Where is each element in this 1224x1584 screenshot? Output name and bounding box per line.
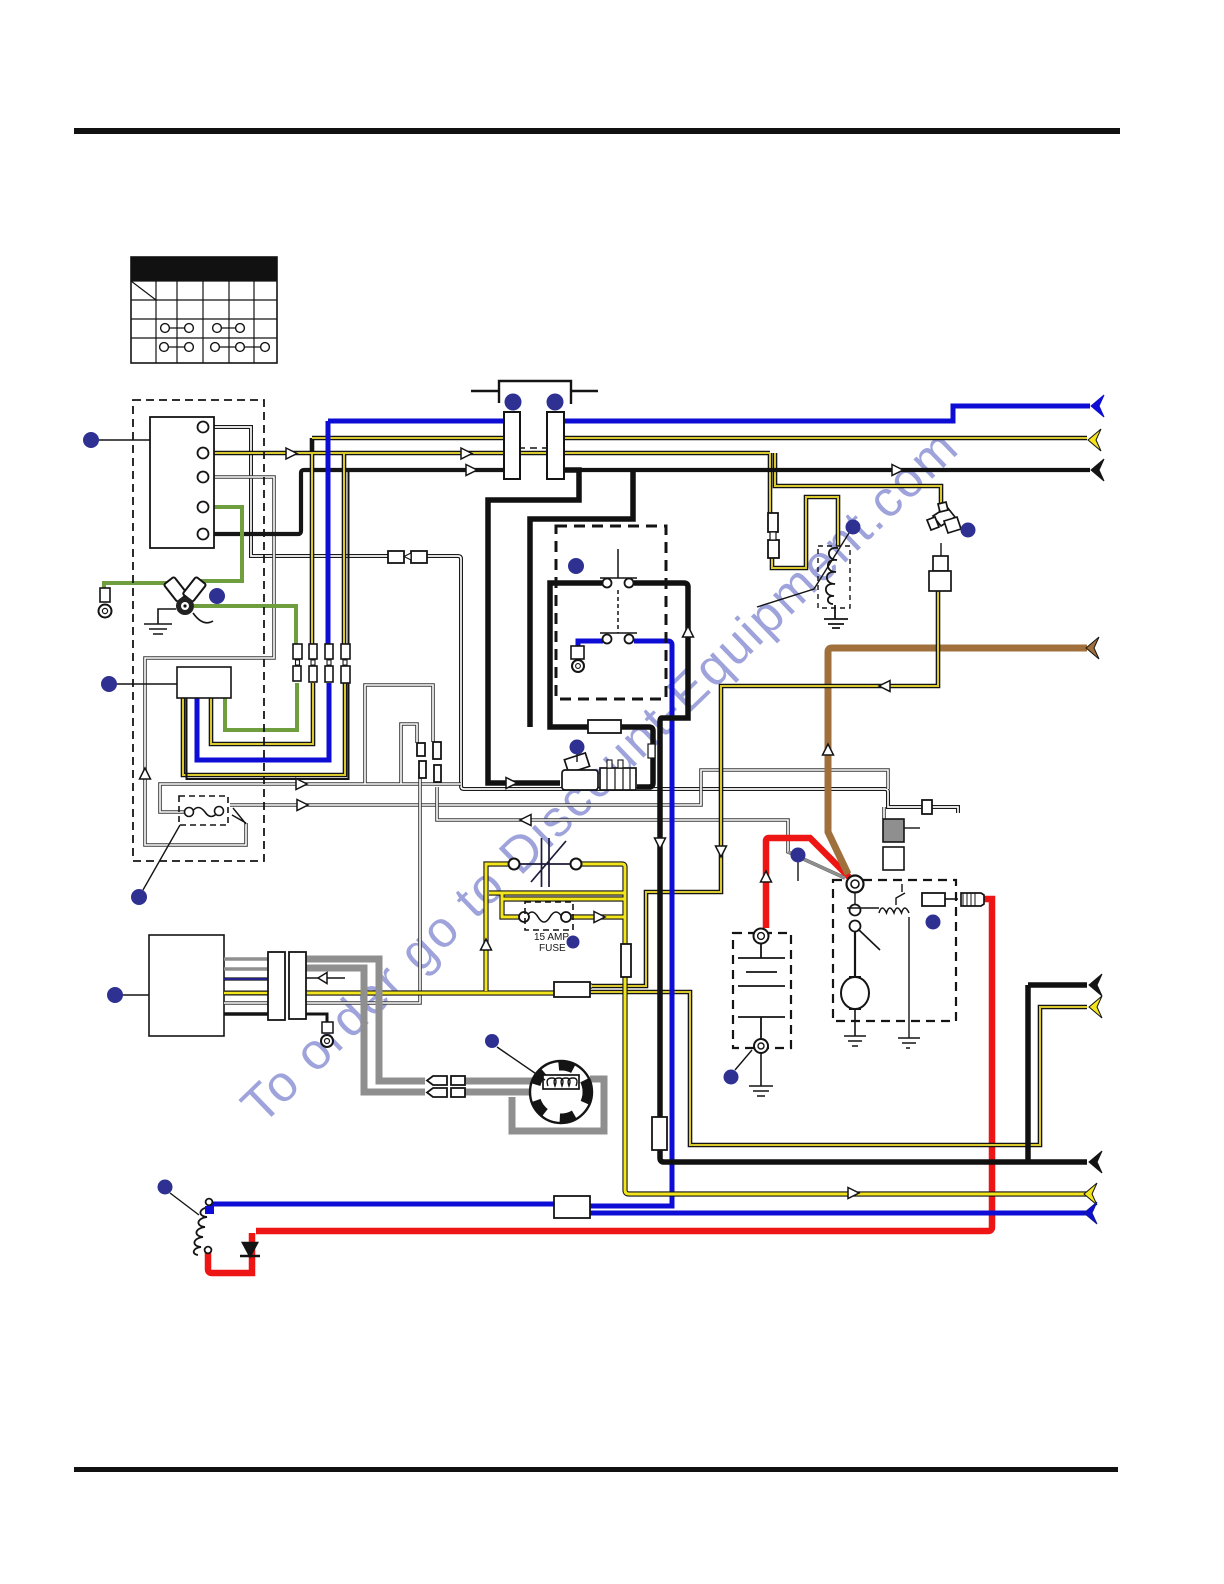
svg-text:15 AMP.: 15 AMP. — [534, 932, 571, 943]
svg-text:FUSE: FUSE — [539, 943, 566, 954]
